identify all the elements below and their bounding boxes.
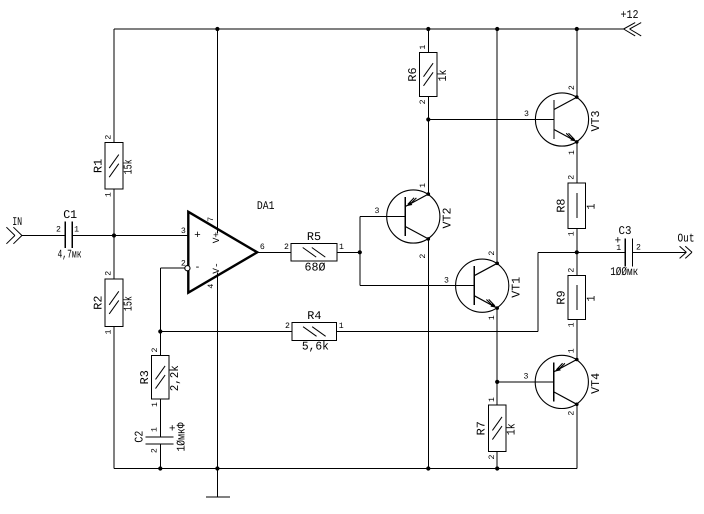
- svg-text:1: 1: [151, 402, 160, 407]
- svg-text:+: +: [194, 229, 200, 241]
- svg-text:R3: R3: [138, 370, 152, 384]
- transistor VT1 emitter arrow: [491, 303, 497, 308]
- svg-text:15k: 15k: [122, 296, 136, 311]
- svg-text:2,2k: 2,2k: [168, 365, 182, 391]
- wire op-amp output to R5: [257, 251, 291, 253]
- wire R8 to output node: [576, 228, 578, 252]
- resistor R7 body: [488, 405, 506, 452]
- capacitor C2 plates: [146, 436, 174, 438]
- svg-text:4,7мк: 4,7мк: [58, 247, 82, 261]
- svg-text:2: 2: [284, 243, 289, 252]
- transistor VT2 collector-emitter diagonals: [405, 194, 428, 206]
- svg-text:7: 7: [207, 217, 216, 222]
- resistor R9 power-rating bar: [576, 285, 578, 310]
- node V- rail junction: [215, 466, 219, 470]
- svg-text:1: 1: [419, 183, 428, 188]
- wire VT2 collector to ground rail: [427, 239, 429, 469]
- svg-text:R6: R6: [406, 67, 420, 81]
- transistor VT4 collector-emitter diagonals: [554, 360, 577, 372]
- node VT3 emitter exit: [575, 140, 579, 144]
- transistor VT1 collector-emitter diagonals: [474, 263, 497, 275]
- ground symbol: [216, 469, 218, 498]
- node VT4 collector exit: [575, 403, 579, 407]
- wire left column top: [113, 29, 115, 143]
- resistor R6 power-rating slashes: [424, 63, 434, 76]
- svg-text:1ØмкФ: 1ØмкФ: [174, 422, 188, 452]
- svg-text:C2: C2: [133, 431, 147, 443]
- wire R1 to input node: [113, 189, 115, 235]
- svg-text:1ØØмк: 1ØØмк: [610, 265, 638, 279]
- svg-text:+12: +12: [621, 8, 639, 22]
- svg-text:C1: C1: [63, 208, 77, 222]
- wire op-amp pin 2 to feedback column: [160, 267, 185, 269]
- capacitor C1 plates: [64, 221, 66, 248]
- wire input node to R2: [113, 236, 115, 279]
- svg-text:R7: R7: [475, 421, 489, 435]
- svg-text:1: 1: [74, 226, 79, 235]
- svg-text:3: 3: [524, 110, 529, 119]
- svg-text:C3: C3: [619, 224, 632, 238]
- svg-text:R2: R2: [92, 296, 106, 310]
- port Out chevron arrow: [680, 246, 687, 252]
- svg-text:2: 2: [568, 175, 577, 180]
- node VT2 collector exit: [427, 237, 431, 241]
- wire R6 bottom to node: [427, 96, 429, 119]
- svg-text:DA1: DA1: [257, 199, 275, 213]
- svg-text:1: 1: [568, 348, 577, 353]
- svg-text:1: 1: [584, 204, 598, 210]
- node driver split junction: [358, 250, 362, 254]
- svg-text:V-: V-: [211, 262, 222, 273]
- op-amp DA1 inverting input bubble: [185, 266, 190, 271]
- svg-text:3: 3: [444, 277, 449, 286]
- wire VT4 collector to ground rail: [576, 404, 578, 468]
- node input junction: [112, 233, 116, 237]
- node VT4 base junction: [495, 380, 499, 384]
- resistor R5 power-rating slashes: [303, 248, 317, 258]
- wire R2 to ground rail: [113, 327, 115, 469]
- node C2 ground junction: [158, 466, 162, 470]
- transistor VT2 body circle: [387, 190, 440, 243]
- node VT2 emitter exit: [427, 192, 431, 196]
- svg-text:R9: R9: [554, 290, 568, 304]
- wire R7 to ground rail: [496, 452, 498, 469]
- op-amp DA1 triangle: [188, 212, 257, 293]
- svg-text:2: 2: [105, 135, 114, 140]
- svg-text:R8: R8: [554, 198, 568, 212]
- svg-text:R5: R5: [307, 230, 321, 244]
- wire VT3 emitter to R8: [576, 142, 578, 183]
- svg-text:VT2: VT2: [440, 208, 454, 229]
- transistor VT3 emitter arrow: [570, 137, 576, 142]
- svg-text:2: 2: [419, 254, 428, 259]
- svg-text:1k: 1k: [505, 423, 519, 435]
- svg-text:2: 2: [568, 85, 577, 90]
- transistor VT1 body circle: [456, 259, 509, 312]
- port +12 chevron arrow: [624, 23, 636, 29]
- transistor VT3 base bar: [553, 100, 555, 139]
- svg-text:2: 2: [568, 411, 577, 416]
- wire VT1 emitter down to VT4 base node: [496, 308, 498, 382]
- wire ground bottom rail: [114, 468, 577, 470]
- node output junction: [575, 250, 579, 254]
- resistor R1 body: [105, 143, 123, 189]
- wire R9 to VT4 emitter: [576, 319, 578, 359]
- svg-text:2: 2: [285, 322, 290, 331]
- node R6 / VT3 base junction: [426, 117, 430, 121]
- wire op-amp V- pin 4 to ground rail: [216, 273, 218, 469]
- svg-text:1: 1: [419, 45, 428, 50]
- svg-text:3: 3: [523, 373, 528, 382]
- node R6 rail junction: [426, 27, 430, 31]
- svg-text:1: 1: [568, 231, 577, 236]
- svg-text:1: 1: [150, 427, 159, 432]
- svg-text:1k: 1k: [436, 70, 450, 82]
- svg-text:3: 3: [181, 227, 186, 236]
- svg-text:15k: 15k: [122, 159, 136, 174]
- transistor VT1 base bar: [473, 266, 475, 305]
- wire R5 to driver node: [337, 251, 360, 253]
- node VT1 emitter exit: [495, 306, 499, 310]
- transistor VT4 base bar: [553, 362, 555, 401]
- svg-text:2: 2: [151, 448, 160, 453]
- wire feedback vertical: [537, 252, 539, 331]
- svg-text:1: 1: [568, 150, 577, 155]
- svg-text:6: 6: [260, 243, 265, 252]
- svg-text:1: 1: [568, 322, 577, 327]
- transistor VT4 emitter arrow: [555, 367, 561, 372]
- svg-text:1: 1: [488, 397, 497, 402]
- node VT3 collector exit: [575, 95, 579, 99]
- wire VT2 emitter to R6 node: [427, 120, 429, 195]
- wire IN to C1: [22, 235, 65, 237]
- svg-text:VT3: VT3: [589, 111, 603, 132]
- svg-text:V+: V+: [211, 232, 222, 244]
- wire feedback node to R4: [160, 331, 292, 333]
- resistor R4 body: [292, 323, 337, 341]
- transistor VT2 emitter arrow: [406, 202, 412, 207]
- resistor R7 power-rating slashes: [492, 417, 502, 431]
- svg-text:1: 1: [584, 296, 598, 302]
- svg-text:Out: Out: [678, 232, 695, 246]
- svg-text:2: 2: [419, 99, 428, 104]
- svg-text:3: 3: [375, 207, 380, 216]
- wire VT1 collector to +12 rail: [496, 29, 498, 263]
- resistor R8 power-rating bar: [576, 193, 578, 218]
- node VT3 rail junction: [575, 27, 579, 31]
- wire VT3 collector to +12 rail: [576, 29, 578, 97]
- svg-text:-: -: [196, 261, 200, 273]
- resistor R2 body: [105, 279, 123, 327]
- resistor R6 body: [420, 53, 438, 97]
- wire R3 to C2: [159, 399, 161, 437]
- wire VT4 base node to R7: [496, 382, 498, 405]
- resistor R2 power-rating slashes: [109, 291, 119, 305]
- wire output node to R9: [576, 252, 578, 275]
- node VT1 collector exit: [495, 262, 499, 266]
- transistor VT3 collector-emitter diagonals: [554, 97, 577, 109]
- svg-text:2: 2: [56, 226, 61, 235]
- svg-text:1: 1: [339, 243, 344, 252]
- svg-text:2: 2: [488, 454, 497, 459]
- svg-text:1: 1: [105, 329, 114, 334]
- svg-text:68Ø: 68Ø: [305, 260, 326, 274]
- svg-text:1: 1: [488, 315, 497, 320]
- svg-text:2: 2: [488, 251, 497, 256]
- node VT2 collector ground junction: [426, 466, 430, 470]
- wire feedback node to R3: [159, 332, 161, 356]
- resistor R5 body: [291, 244, 337, 262]
- transistor VT2 base bar: [404, 197, 406, 236]
- svg-text:R4: R4: [307, 309, 321, 323]
- wire C1 to op-amp input: [72, 235, 188, 237]
- node R7 ground junction: [495, 466, 499, 470]
- wire feedback column down: [159, 268, 161, 331]
- wire R6 top to +12 rail: [427, 29, 429, 53]
- resistor R8 body: [568, 183, 586, 229]
- svg-text:1: 1: [616, 244, 621, 253]
- resistor R4 power-rating slashes: [303, 327, 317, 337]
- wire driver node up to VT2 base: [359, 217, 361, 253]
- svg-text:IN: IN: [12, 215, 22, 229]
- svg-text:VT4: VT4: [589, 373, 603, 394]
- node VT4 emitter exit: [575, 358, 579, 362]
- resistor R3 body: [152, 356, 170, 400]
- capacitor C3 plates: [624, 238, 626, 266]
- wire R4 to feedback vertical: [337, 331, 538, 333]
- wire output node to C3: [577, 251, 626, 253]
- svg-text:2: 2: [105, 271, 114, 276]
- wire op-amp V+ pin 7 to +12 rail: [216, 29, 218, 234]
- wire C3 to Out port: [632, 251, 686, 253]
- transistor VT4 body circle: [535, 355, 588, 408]
- svg-text:1: 1: [105, 192, 114, 197]
- resistor R9 body: [568, 276, 586, 320]
- wire VT4 base row: [497, 381, 553, 383]
- transistor VT3 body circle: [535, 93, 588, 146]
- svg-text:1: 1: [339, 322, 344, 331]
- svg-text:R1: R1: [92, 159, 106, 173]
- wire +12 top rail: [114, 28, 624, 30]
- svg-text:2: 2: [181, 260, 186, 269]
- svg-text:2: 2: [568, 268, 577, 273]
- wire VT3 base row: [428, 119, 554, 121]
- port IN chevron arrow: [13, 227, 22, 235]
- svg-text:4: 4: [207, 284, 216, 289]
- svg-text:2: 2: [636, 244, 641, 253]
- resistor R1 power-rating slashes: [109, 155, 119, 169]
- resistor R3 power-rating slashes: [156, 366, 166, 380]
- node feedback junction: [158, 329, 162, 333]
- svg-text:5,6k: 5,6k: [302, 340, 329, 354]
- svg-text:2: 2: [151, 347, 160, 352]
- wire driver node down to VT1 base: [359, 252, 361, 285]
- svg-text:VT1: VT1: [509, 277, 523, 298]
- wire C2 to ground rail: [159, 444, 161, 469]
- node VT1 rail junction: [495, 27, 499, 31]
- wire feedback to output node: [538, 251, 577, 253]
- node V+ rail junction: [215, 27, 219, 31]
